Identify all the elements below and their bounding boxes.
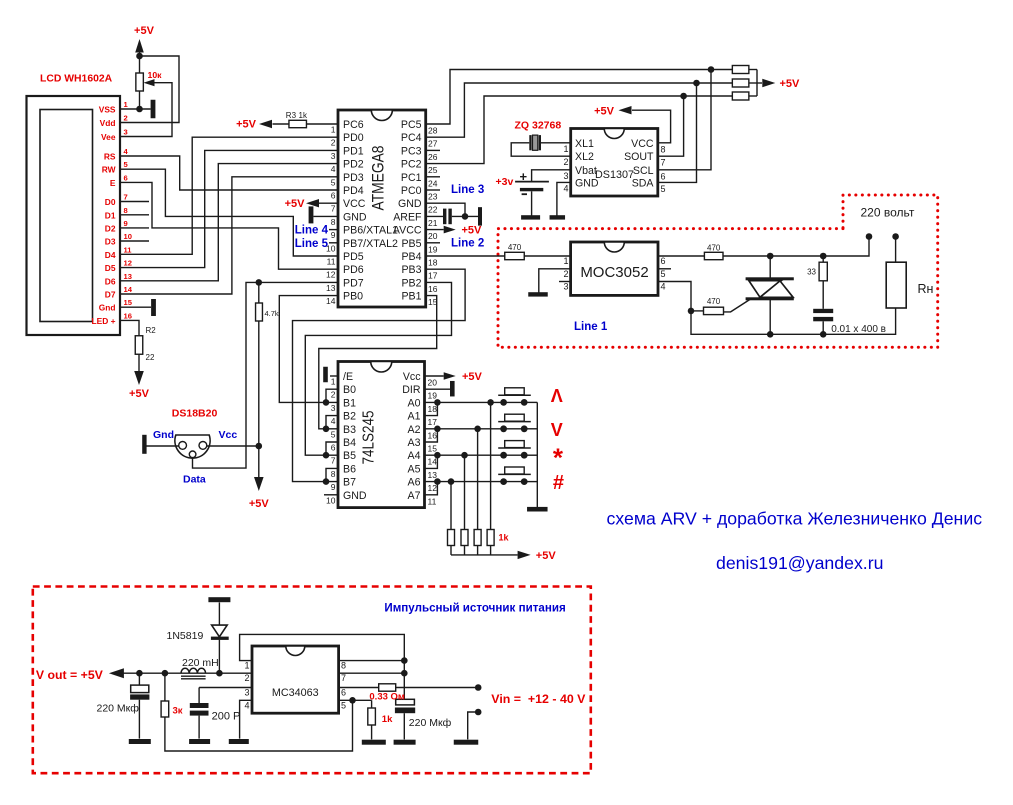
svg-text:RW: RW xyxy=(102,165,116,175)
svg-text:18: 18 xyxy=(428,404,438,414)
svg-text:B7: B7 xyxy=(343,477,356,489)
svg-text:27: 27 xyxy=(428,139,438,149)
svg-text:28: 28 xyxy=(428,126,438,136)
svg-text:7: 7 xyxy=(331,456,336,466)
svg-text:3: 3 xyxy=(124,128,128,137)
svg-text:+5V: +5V xyxy=(594,106,615,118)
svg-text:ATMEGA8: ATMEGA8 xyxy=(369,146,388,211)
svg-text:A7: A7 xyxy=(408,490,421,502)
svg-text:2: 2 xyxy=(124,114,128,123)
svg-text:+: + xyxy=(520,169,528,184)
svg-text:8: 8 xyxy=(661,144,666,154)
svg-text:B2: B2 xyxy=(343,411,356,423)
svg-text:XL2: XL2 xyxy=(575,151,594,163)
svg-text:6: 6 xyxy=(331,191,336,201)
svg-text:8: 8 xyxy=(124,206,128,215)
svg-text:PC2: PC2 xyxy=(401,159,422,171)
svg-text:1: 1 xyxy=(563,144,568,154)
svg-text:#: # xyxy=(553,472,564,494)
svg-text:A0: A0 xyxy=(408,397,421,409)
svg-text:Line 5: Line 5 xyxy=(295,238,329,250)
svg-text:VCC: VCC xyxy=(631,138,654,150)
svg-text:9: 9 xyxy=(124,219,128,228)
svg-text:0.33 Ом: 0.33 Ом xyxy=(369,692,405,703)
svg-text:2: 2 xyxy=(331,390,336,400)
svg-text:PB5: PB5 xyxy=(401,238,421,250)
svg-text:PD3: PD3 xyxy=(343,172,364,184)
svg-text:4: 4 xyxy=(563,183,568,193)
svg-text:Vin = +12 - 40 V: Vin = +12 - 40 V xyxy=(491,692,586,706)
svg-text:/E: /E xyxy=(343,371,353,383)
svg-text:19: 19 xyxy=(428,391,438,401)
svg-text:D6: D6 xyxy=(105,276,116,286)
svg-text:ZQ 32768: ZQ 32768 xyxy=(515,120,562,132)
svg-text:16: 16 xyxy=(124,311,132,320)
svg-text:Rн: Rн xyxy=(918,282,934,296)
svg-text:Vdd: Vdd xyxy=(100,118,116,128)
svg-text:+5V: +5V xyxy=(536,550,557,562)
svg-text:+5V: +5V xyxy=(462,371,483,383)
svg-text:7: 7 xyxy=(341,673,346,683)
svg-text:11: 11 xyxy=(124,245,133,254)
svg-text:DIR: DIR xyxy=(402,384,421,396)
svg-text:PB1: PB1 xyxy=(401,291,421,303)
svg-text:B1: B1 xyxy=(343,397,356,409)
svg-text:PD6: PD6 xyxy=(343,264,364,276)
svg-text:+5V: +5V xyxy=(129,388,150,400)
svg-text:+5V: +5V xyxy=(134,25,155,37)
svg-text:D1: D1 xyxy=(105,210,116,220)
svg-text:13: 13 xyxy=(326,283,336,293)
svg-text:7: 7 xyxy=(124,193,128,202)
svg-text:14: 14 xyxy=(326,296,336,306)
svg-text:470: 470 xyxy=(707,244,721,253)
svg-text:6: 6 xyxy=(661,171,666,181)
svg-text:4: 4 xyxy=(244,700,249,710)
svg-text:схема ARV + доработка Железнич: схема ARV + доработка Железниченко Денис xyxy=(607,509,983,529)
svg-text:12: 12 xyxy=(124,259,132,268)
svg-text:6: 6 xyxy=(661,256,666,266)
svg-text:B6: B6 xyxy=(343,463,356,475)
svg-text:220 вольт: 220 вольт xyxy=(861,206,915,220)
svg-text:18: 18 xyxy=(428,258,438,268)
svg-text:PB6/XTAL1: PB6/XTAL1 xyxy=(343,225,398,237)
svg-text:21: 21 xyxy=(428,218,438,228)
svg-text:14: 14 xyxy=(428,457,438,467)
svg-text:AREF: AREF xyxy=(393,211,422,223)
svg-text:D7: D7 xyxy=(105,290,116,300)
svg-text:5: 5 xyxy=(341,700,346,710)
svg-text:Λ: Λ xyxy=(551,386,563,406)
svg-text:1N5819: 1N5819 xyxy=(167,630,204,642)
svg-text:PC1: PC1 xyxy=(401,172,422,184)
svg-text:12: 12 xyxy=(428,483,438,493)
svg-text:6: 6 xyxy=(341,688,346,698)
svg-text:1: 1 xyxy=(331,125,336,135)
svg-text:1: 1 xyxy=(563,256,568,266)
svg-text:15: 15 xyxy=(124,298,133,307)
svg-text:PD4: PD4 xyxy=(343,185,364,197)
svg-text:PD5: PD5 xyxy=(343,251,364,263)
svg-text:SOUT: SOUT xyxy=(624,151,654,163)
svg-text:denis191@yandex.ru: denis191@yandex.ru xyxy=(716,553,883,573)
svg-text:12: 12 xyxy=(326,270,336,280)
svg-text:Vee: Vee xyxy=(101,132,116,142)
svg-text:3: 3 xyxy=(244,688,249,698)
svg-text:+5V: +5V xyxy=(249,498,270,510)
svg-text:6: 6 xyxy=(124,173,128,182)
svg-text:16: 16 xyxy=(428,284,438,294)
svg-text:+3v: +3v xyxy=(495,176,513,188)
svg-text:Line 1: Line 1 xyxy=(574,321,608,333)
svg-text:Gnd: Gnd xyxy=(99,303,116,313)
svg-text:470: 470 xyxy=(508,243,522,252)
svg-text:A5: A5 xyxy=(408,463,421,475)
svg-text:VCC: VCC xyxy=(343,198,366,210)
svg-text:10: 10 xyxy=(326,495,336,505)
svg-text:*: * xyxy=(553,443,564,473)
svg-text:15: 15 xyxy=(428,444,438,454)
svg-text:PC5: PC5 xyxy=(401,119,422,131)
svg-text:Line 2: Line 2 xyxy=(451,237,484,249)
svg-text:20: 20 xyxy=(428,378,438,388)
svg-text:23: 23 xyxy=(428,192,438,202)
svg-text:9: 9 xyxy=(331,230,336,240)
svg-text:5: 5 xyxy=(661,269,666,279)
svg-text:Line 4: Line 4 xyxy=(295,225,329,237)
svg-text:19: 19 xyxy=(428,244,438,254)
svg-text:PC0: PC0 xyxy=(401,185,422,197)
svg-text:Vcc: Vcc xyxy=(403,371,421,383)
svg-text:PD7: PD7 xyxy=(343,277,364,289)
svg-text:B3: B3 xyxy=(343,424,356,436)
svg-text:5: 5 xyxy=(661,184,666,194)
svg-text:17: 17 xyxy=(428,417,438,427)
svg-text:PD1: PD1 xyxy=(343,145,364,157)
svg-text:DS18B20: DS18B20 xyxy=(172,408,218,420)
svg-text:11: 11 xyxy=(428,496,437,506)
svg-text:D2: D2 xyxy=(105,223,116,233)
svg-text:33: 33 xyxy=(807,268,816,277)
svg-text:PD2: PD2 xyxy=(343,159,364,171)
svg-text:R2: R2 xyxy=(146,326,157,335)
svg-text:V out = +5V: V out = +5V xyxy=(36,668,104,682)
svg-text:3к: 3к xyxy=(173,706,183,717)
svg-text:SCL: SCL xyxy=(633,165,654,177)
svg-text:D4: D4 xyxy=(105,250,116,260)
svg-text:E: E xyxy=(110,178,116,188)
svg-text:GND: GND xyxy=(398,198,422,210)
svg-text:D5: D5 xyxy=(105,263,116,273)
svg-text:8: 8 xyxy=(331,217,336,227)
svg-text:13: 13 xyxy=(428,470,438,480)
svg-text:5: 5 xyxy=(331,177,336,187)
svg-text:4: 4 xyxy=(331,164,336,174)
svg-text:3: 3 xyxy=(563,282,568,292)
svg-text:74LS245: 74LS245 xyxy=(361,411,378,465)
svg-text:Line 3: Line 3 xyxy=(451,184,484,196)
svg-text:7: 7 xyxy=(661,158,666,168)
svg-text:2: 2 xyxy=(563,157,568,167)
svg-text:A3: A3 xyxy=(408,437,421,449)
svg-text:3: 3 xyxy=(331,151,336,161)
svg-text:220 Мкф: 220 Мкф xyxy=(409,717,452,729)
svg-text:GND: GND xyxy=(343,490,367,502)
svg-text:220 mH: 220 mH xyxy=(182,657,219,669)
svg-text:XL1: XL1 xyxy=(575,138,594,150)
svg-text:10к: 10к xyxy=(148,70,163,80)
svg-text:MC34063: MC34063 xyxy=(272,687,319,699)
svg-text:0.01 x 400 в: 0.01 x 400 в xyxy=(831,324,886,335)
svg-text:8: 8 xyxy=(331,469,336,479)
svg-text:220 Мкф: 220 Мкф xyxy=(97,703,140,715)
svg-text:A1: A1 xyxy=(408,411,421,423)
svg-text:B5: B5 xyxy=(343,450,356,462)
svg-text:24: 24 xyxy=(428,178,438,188)
svg-text:D0: D0 xyxy=(105,197,116,207)
svg-text:10: 10 xyxy=(124,232,132,241)
svg-text:4.7k: 4.7k xyxy=(265,309,279,318)
svg-text:V: V xyxy=(551,420,563,440)
svg-text:+5V: +5V xyxy=(462,225,483,237)
svg-text:7: 7 xyxy=(331,204,336,214)
svg-text:1k: 1k xyxy=(499,533,510,543)
svg-text:Data: Data xyxy=(183,474,206,486)
svg-text:Gnd: Gnd xyxy=(153,429,174,441)
svg-text:D3: D3 xyxy=(105,237,116,247)
svg-text:PB4: PB4 xyxy=(401,251,421,263)
svg-text:DS1307: DS1307 xyxy=(595,169,634,181)
svg-text:PC4: PC4 xyxy=(401,132,422,144)
svg-text:470: 470 xyxy=(707,297,721,306)
svg-text:PB2: PB2 xyxy=(401,277,421,289)
svg-text:26: 26 xyxy=(428,152,438,162)
svg-text:A6: A6 xyxy=(408,477,421,489)
svg-text:+5V: +5V xyxy=(236,119,257,131)
svg-text:PC3: PC3 xyxy=(401,145,422,157)
svg-text:14: 14 xyxy=(124,285,133,294)
svg-text:Vcc: Vcc xyxy=(219,429,238,441)
svg-text:RS: RS xyxy=(104,152,116,162)
svg-text:1: 1 xyxy=(331,377,336,387)
svg-text:VSS: VSS xyxy=(99,105,116,115)
svg-text:11: 11 xyxy=(327,257,336,267)
svg-text:B4: B4 xyxy=(343,437,356,449)
svg-text:1: 1 xyxy=(244,661,249,671)
svg-text:17: 17 xyxy=(428,271,438,281)
svg-text:25: 25 xyxy=(428,165,438,175)
svg-text:2: 2 xyxy=(244,673,249,683)
svg-text:LED +: LED + xyxy=(92,316,116,326)
svg-text:22: 22 xyxy=(428,205,438,215)
svg-text:PD0: PD0 xyxy=(343,132,364,144)
svg-text:1k: 1k xyxy=(299,111,308,120)
svg-text:+5V: +5V xyxy=(285,198,306,210)
svg-text:6: 6 xyxy=(331,443,336,453)
svg-text:SDA: SDA xyxy=(632,177,655,189)
svg-text:13: 13 xyxy=(124,272,132,281)
svg-text:16: 16 xyxy=(428,430,438,440)
svg-text:MOC3052: MOC3052 xyxy=(580,264,648,281)
svg-text:GND: GND xyxy=(343,211,367,223)
svg-text:4: 4 xyxy=(661,282,666,292)
svg-text:PB0: PB0 xyxy=(343,291,363,303)
svg-text:20: 20 xyxy=(428,231,438,241)
svg-text:PB3: PB3 xyxy=(401,264,421,276)
svg-text:LCD WH1602A: LCD WH1602A xyxy=(40,74,113,85)
svg-text:5: 5 xyxy=(331,429,336,439)
svg-text:A4: A4 xyxy=(408,450,421,462)
svg-text:R3: R3 xyxy=(286,111,297,120)
svg-text:4: 4 xyxy=(331,416,336,426)
svg-text:A2: A2 xyxy=(408,424,421,436)
svg-text:B0: B0 xyxy=(343,384,356,396)
svg-text:3: 3 xyxy=(331,403,336,413)
svg-text:PB7/XTAL2: PB7/XTAL2 xyxy=(343,238,398,250)
svg-text:22: 22 xyxy=(146,353,155,362)
svg-text:8: 8 xyxy=(341,661,346,671)
svg-text:1k: 1k xyxy=(382,714,393,725)
svg-text:2: 2 xyxy=(563,269,568,279)
svg-text:200 P: 200 P xyxy=(212,711,241,723)
svg-text:AVCC: AVCC xyxy=(393,225,422,237)
svg-text:PC6: PC6 xyxy=(343,119,364,131)
svg-text:Vbat: Vbat xyxy=(575,165,597,177)
svg-text:3: 3 xyxy=(563,171,568,181)
svg-text:2: 2 xyxy=(331,138,336,148)
svg-text:9: 9 xyxy=(331,482,336,492)
svg-text:Импульсный источник питания: Импульсный источник питания xyxy=(384,602,565,615)
svg-text:+5V: +5V xyxy=(780,78,801,90)
